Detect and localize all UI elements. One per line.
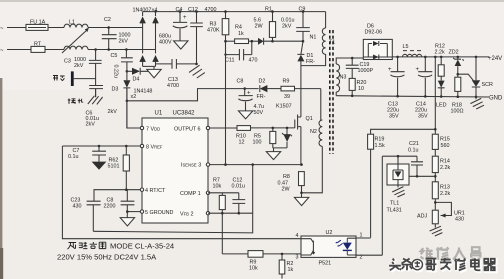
svg-text:1.5k: 1.5k — [375, 143, 385, 149]
wire Isense line — [208, 163, 303, 166]
capacitor C14 220u 35V — [415, 57, 432, 120]
capacitor C12 4700 (Y-cap HV) — [188, 7, 217, 64]
capacitor C8 4.7u 50V (VCC) — [237, 79, 265, 117]
resistor R20 10 — [349, 78, 366, 95]
wire TL431 cathode node — [382, 155, 417, 164]
wire TL431 ref — [409, 175, 435, 177]
svg-text:D92-06: D92-06 — [365, 30, 383, 36]
svg-text:0.1u: 0.1u — [68, 154, 79, 160]
svg-text:10: 10 — [358, 86, 364, 92]
svg-text:LED: LED — [436, 103, 447, 109]
shunt reg TL1 TL431 — [387, 164, 410, 214]
wire opto emitter line — [222, 253, 301, 255]
svg-text:GND: GND — [489, 96, 503, 102]
label bottom title — [68, 242, 106, 249]
wire opto pin1 to R19 — [347, 237, 370, 239]
diode D1 FR- — [297, 41, 315, 65]
svg-text:3: 3 — [296, 255, 299, 261]
svg-text:10k: 10k — [213, 184, 222, 190]
svg-text:C21: C21 — [409, 141, 419, 147]
svg-text:UC3842: UC3842 — [173, 111, 196, 117]
wire AC bottom line — [7, 49, 156, 51]
earth ground (secondary) — [470, 97, 484, 109]
svg-text:+24V: +24V — [488, 56, 502, 62]
svg-text:39: 39 — [284, 94, 290, 100]
resistor R10 12 — [208, 126, 251, 146]
svg-text:400V: 400V — [159, 40, 172, 46]
svg-text:COMP 1: COMP 1 — [180, 191, 201, 197]
svg-text:P521: P521 — [319, 261, 332, 267]
svg-text:D2: D2 — [259, 79, 266, 85]
svg-text:~: ~ — [0, 48, 4, 54]
resistor R9b 10k — [248, 251, 263, 272]
bridge diode BR2 (top-right) — [153, 12, 159, 54]
wire RT/CT pin4 — [94, 188, 140, 201]
capacitor C13s 220u 35V — [387, 57, 405, 120]
svg-text:Q1: Q1 — [306, 116, 313, 122]
fuse FU 1A — [26, 20, 48, 31]
svg-text:1N4007×4: 1N4007×4 — [133, 8, 158, 14]
capacitor C13 4700 (Y-cap N) — [156, 59, 197, 89]
wire COMP pin1 — [208, 192, 239, 194]
inductor L5 — [403, 44, 422, 57]
svg-text:C3: C3 — [64, 59, 71, 65]
svg-text:1k: 1k — [238, 31, 244, 37]
ground (bridge negative) — [147, 66, 161, 77]
resistor R6 5101 — [108, 146, 130, 190]
svg-text:4: 4 — [296, 233, 299, 239]
transformer aux winding N2 — [302, 89, 322, 193]
svg-text:OUTPUT 6: OUTPUT 6 — [174, 127, 201, 133]
svg-text:T1: T1 — [329, 40, 335, 46]
svg-text:100Ω: 100Ω — [451, 109, 464, 115]
svg-text:R9: R9 — [283, 79, 290, 85]
svg-text:1000P: 1000P — [358, 68, 374, 74]
svg-text:U1: U1 — [155, 111, 163, 117]
svg-text:R19: R19 — [375, 137, 385, 143]
resistor R19 1.5k — [368, 134, 385, 237]
svg-text:2200: 2200 — [104, 204, 116, 210]
svg-text:+: + — [416, 67, 420, 73]
svg-text:N2: N2 — [310, 129, 317, 135]
svg-text:R1: R1 — [265, 7, 272, 13]
svg-text:0.22u: 0.22u — [113, 65, 119, 79]
svg-text:R15: R15 — [440, 137, 450, 143]
svg-text:560: 560 — [441, 143, 450, 149]
svg-text:2kV: 2kV — [119, 39, 129, 45]
thermistor RT — [31, 42, 45, 53]
svg-text:C11: C11 — [225, 58, 235, 64]
bridge diode BR4 (bottom-right) — [153, 55, 159, 66]
svg-text:FU 1A: FU 1A — [30, 20, 46, 26]
resistor R13 2.2k — [432, 182, 450, 210]
resistor R12 2.2 — [435, 44, 445, 77]
svg-text:N1: N1 — [310, 35, 317, 41]
svg-text:+: + — [388, 67, 392, 73]
svg-text:5101: 5101 — [108, 164, 120, 170]
ground (R8/N2) — [294, 193, 308, 206]
bridge diode BR3 (bottom-left) — [140, 55, 146, 66]
svg-text:430: 430 — [455, 217, 464, 223]
wire +24V rail — [392, 56, 502, 62]
wire AC top line — [7, 27, 143, 29]
svg-text:C4: C4 — [176, 7, 183, 13]
svg-text:4700: 4700 — [205, 7, 217, 13]
wire GROUND pin5 — [126, 210, 140, 213]
wire VDD pin7 — [127, 88, 140, 128]
svg-text:FR-: FR- — [306, 59, 315, 65]
resistor R1 5.6 2W — [254, 7, 276, 43]
transformer secondary N3 — [336, 57, 363, 96]
diode D4 1N4148 — [127, 68, 148, 83]
resistor R18 100 — [451, 74, 464, 114]
bridge diode BR1 (top-left) — [140, 12, 146, 54]
svg-text:50V: 50V — [254, 110, 264, 116]
resistor R4 1k — [226, 25, 259, 44]
wire VREF feedback loop — [62, 146, 301, 239]
svg-text:x2: x2 — [131, 94, 137, 100]
resistor R3 470K — [207, 10, 229, 41]
svg-text:R4: R4 — [235, 25, 242, 31]
capacitor C2 — [102, 17, 131, 50]
svg-text:R8: R8 — [283, 174, 290, 180]
wire opto pin2 to TL431 cathode — [347, 156, 382, 255]
svg-text:+: + — [183, 15, 187, 21]
svg-text:2.2k: 2.2k — [440, 191, 450, 197]
thyristor SCR (crowbar) — [458, 57, 493, 97]
svg-text:N3: N3 — [340, 75, 347, 81]
wire bridge negative rail — [143, 65, 156, 67]
svg-text:C8: C8 — [237, 79, 244, 85]
svg-text:470K: 470K — [207, 28, 220, 34]
svg-text:2W: 2W — [255, 24, 264, 30]
svg-text:D3: D3 — [112, 87, 119, 93]
svg-text:2kV: 2kV — [282, 24, 292, 30]
text 开关 — [53, 76, 65, 81]
svg-text:K1507: K1507 — [276, 104, 292, 110]
diode D2 FR- — [257, 79, 282, 101]
zener ZD2 — [449, 50, 464, 76]
wire secondary ground rail — [336, 95, 503, 102]
diode D5 — [258, 38, 273, 45]
wire VREF pin8 — [62, 145, 140, 148]
inductor L1 common-mode choke — [62, 20, 89, 54]
capacitor C12b 0.01u — [232, 178, 246, 214]
resistor R9 39 — [281, 79, 321, 101]
capacitor C7 0.1u — [68, 146, 106, 162]
wire opto feed branch — [371, 128, 437, 134]
capacitor C11 470 — [224, 40, 257, 64]
text 接地 — [68, 99, 83, 104]
wire ground bus to Isense — [93, 165, 252, 233]
svg-text:2kV: 2kV — [86, 122, 96, 128]
MOSFET Q1 K1507 — [276, 104, 313, 165]
svg-text:430: 430 — [73, 204, 82, 210]
potentiometer UR1 430 (ADJ) — [417, 202, 465, 227]
ground (C8) — [238, 111, 252, 119]
ground (C4) — [174, 41, 188, 49]
resistor R5 100 — [253, 127, 276, 148]
svg-text:ADJ: ADJ — [417, 214, 427, 220]
earth ground (TL431) — [392, 185, 405, 197]
svg-text:5 GROUND: 5 GROUND — [145, 210, 174, 216]
svg-text:12: 12 — [239, 140, 245, 146]
svg-text:1N4148: 1N4148 — [134, 89, 153, 95]
svg-text:~: ~ — [0, 26, 4, 32]
svg-text:2kV: 2kV — [74, 63, 84, 69]
capacitor C5 — [111, 50, 133, 79]
svg-text:4 RT/CT: 4 RT/CT — [145, 188, 166, 194]
svg-text:FR-: FR- — [257, 94, 266, 100]
svg-text:35V: 35V — [389, 114, 399, 120]
wire VFB drop to opto emitter line — [221, 213, 223, 254]
svg-text:L5: L5 — [403, 44, 409, 50]
wire VCC line — [127, 89, 259, 101]
optocoupler U2 P521 — [296, 230, 363, 267]
ground (pin5) — [120, 212, 134, 226]
wire drain node — [301, 54, 326, 117]
svg-text:10k: 10k — [249, 266, 258, 272]
svg-text:35V: 35V — [418, 114, 428, 120]
earth ground (Y-caps) — [189, 63, 205, 78]
wire gate line — [251, 127, 295, 129]
node HV+ rail — [143, 11, 326, 13]
op-amp U1 UC3842 — [140, 111, 209, 224]
wire HV sense riser — [225, 41, 227, 164]
resistor R2 1k (pulldown) — [279, 253, 293, 279]
svg-text:1k: 1k — [288, 267, 294, 273]
svg-text:C9: C9 — [299, 7, 306, 13]
transformer T1 core — [329, 30, 335, 154]
capacitor C6 — [86, 86, 118, 128]
svg-text:+: + — [247, 91, 251, 97]
svg-text:C5: C5 — [111, 53, 118, 59]
ground (C7, filled) — [92, 162, 107, 170]
svg-text:4700: 4700 — [167, 83, 179, 89]
svg-text:MODE CL-A-35-24: MODE CL-A-35-24 — [110, 242, 174, 251]
earth ground (接地) — [88, 89, 103, 105]
svg-text:SCR: SCR — [482, 82, 493, 88]
svg-text:D4: D4 — [133, 77, 140, 83]
transformer primary N1 — [310, 12, 326, 55]
svg-text:2kV: 2kV — [108, 109, 118, 115]
capacitor C9 0.01u 2kV — [281, 7, 310, 43]
capacitor C19 1000P — [346, 58, 374, 78]
wire snubber node — [273, 40, 304, 42]
svg-text:470: 470 — [249, 58, 258, 64]
svg-text:U2: U2 — [326, 230, 333, 236]
resistor R7 10k — [213, 178, 226, 214]
svg-text:TL431: TL431 — [387, 208, 402, 214]
opto LED (navy) — [335, 238, 352, 255]
capacitor C23 430 — [71, 198, 101, 232]
svg-text:2.2k: 2.2k — [435, 50, 445, 56]
earth ground (pot) — [430, 226, 443, 236]
svg-text:2.2k: 2.2k — [440, 165, 450, 171]
wire VFB pin2 — [208, 212, 253, 215]
watermark gray 维修人员 — [420, 247, 480, 260]
svg-text:RT: RT — [34, 42, 42, 48]
wire output feed riser — [434, 57, 436, 134]
resistor R15 560 — [432, 134, 450, 156]
svg-text:2W: 2W — [282, 187, 291, 193]
svg-text:0.01u: 0.01u — [232, 184, 246, 190]
capacitor C3 — [64, 50, 102, 86]
diode D3 1N4148 — [112, 71, 153, 128]
wire gate clamp link + ground — [266, 148, 287, 160]
rectifier D6 D92-06 — [363, 24, 392, 60]
resistor R8 0.47 2W (current sense) — [278, 172, 305, 195]
svg-text:R14: R14 — [440, 159, 450, 165]
svg-text:R13: R13 — [440, 185, 450, 191]
svg-text:220V 15% 50Hz DC24V 1.5A: 220V 15% 50Hz DC24V 1.5A — [57, 253, 157, 262]
resistor R14 2.2k — [432, 156, 450, 182]
capacitor C4 680u 400V — [159, 7, 187, 46]
capacitor C8b 2200 — [104, 190, 135, 212]
svg-text:C12: C12 — [188, 7, 198, 13]
svg-text:ZD2: ZD2 — [449, 50, 459, 56]
switch bar (开关) — [71, 71, 96, 86]
svg-text:100: 100 — [253, 140, 262, 146]
LED indicator — [436, 76, 447, 108]
svg-text:TL1: TL1 — [390, 201, 399, 207]
svg-text:C2: C2 — [104, 17, 111, 23]
capacitor C21 0.1u — [408, 141, 423, 178]
zener ZD1 (gate protect) — [282, 127, 292, 148]
svg-text:0.1u: 0.1u — [408, 148, 419, 154]
